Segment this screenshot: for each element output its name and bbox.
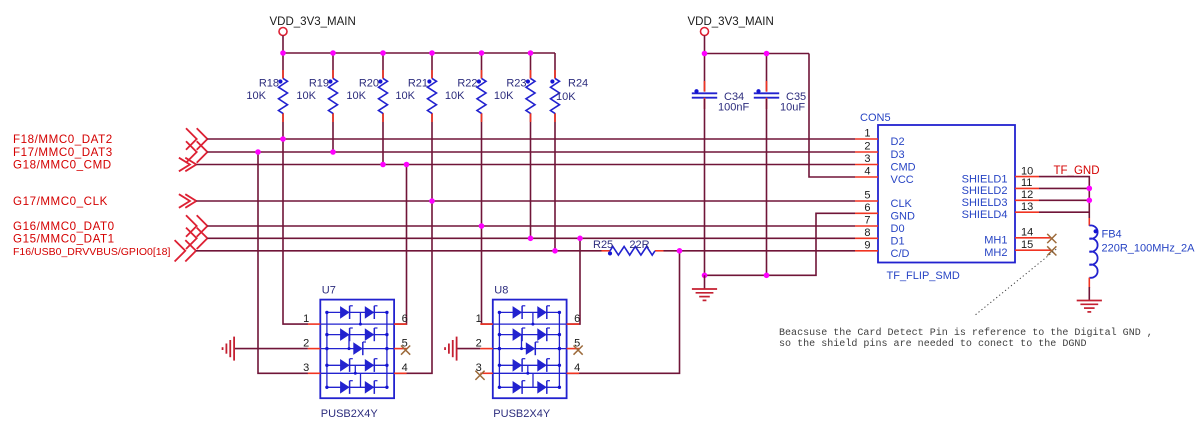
resistor R25 22R <box>593 239 664 255</box>
svg-text:1: 1 <box>303 313 309 325</box>
no-connect X pin15 <box>1047 246 1056 255</box>
svg-text:9: 9 <box>864 240 870 252</box>
svg-text:10uF: 10uF <box>780 101 805 113</box>
svg-text:7: 7 <box>864 215 870 227</box>
CON5 pin 2 D3 <box>855 141 905 161</box>
svg-text:1: 1 <box>864 128 870 140</box>
power symbol VDD_3V3_MAIN (right) <box>688 16 774 36</box>
CON5 pin 3 CMD <box>855 153 916 173</box>
CON5 pin 6 GND <box>855 202 915 222</box>
resistor R20 10K <box>346 53 387 165</box>
svg-text:TF_FLIP_SMD: TF_FLIP_SMD <box>887 270 960 282</box>
svg-text:R20: R20 <box>359 78 379 90</box>
connector CON5 body <box>878 125 1015 263</box>
svg-text:C/D: C/D <box>891 248 910 260</box>
ground (TF_GND) <box>1077 301 1102 312</box>
svg-text:22R: 22R <box>629 239 649 251</box>
junction dots on pull-up rail <box>280 50 533 56</box>
svg-text:CON5: CON5 <box>860 112 891 124</box>
ESD diode array U7 PUSB2X4Y <box>223 285 411 421</box>
wire VDD stem left <box>282 36 284 54</box>
svg-text:10K: 10K <box>246 90 266 102</box>
resistor R22 10K <box>445 53 486 226</box>
junction cap rail C34 <box>702 51 708 57</box>
svg-text:8: 8 <box>864 227 870 239</box>
svg-text:6: 6 <box>864 202 870 214</box>
svg-text:U7: U7 <box>322 285 336 297</box>
svg-text:15: 15 <box>1021 239 1033 251</box>
wire CD left segment <box>196 250 602 252</box>
svg-text:100nF: 100nF <box>718 101 749 113</box>
svg-text:MH1: MH1 <box>984 235 1007 247</box>
junction C-D branch <box>677 248 683 254</box>
wire CMD to U7 pin6 <box>394 165 406 325</box>
resistor R18 10K <box>246 53 287 139</box>
svg-text:2: 2 <box>303 337 309 349</box>
wire D0 <box>207 225 855 227</box>
junction cap rail C35 <box>764 51 770 57</box>
junction CLK/R21 <box>429 198 435 204</box>
svg-text:220R_100MHz_2A: 220R_100MHz_2A <box>1102 243 1196 255</box>
wire DAT1 to U8 pin6 <box>567 238 580 324</box>
svg-text:2: 2 <box>476 337 482 349</box>
wire DAT3 <box>207 151 855 153</box>
svg-text:14: 14 <box>1021 227 1033 239</box>
svg-text:10: 10 <box>1021 165 1033 177</box>
resistor R23 10K <box>494 53 535 238</box>
svg-text:13: 13 <box>1021 201 1033 213</box>
wire shield3 to bus <box>1039 199 1089 201</box>
svg-text:VDD_3V3_MAIN: VDD_3V3_MAIN <box>688 16 774 28</box>
CON5 pin 13 SHIELD4 <box>962 201 1039 221</box>
CON5 pin 4 VCC <box>855 166 914 186</box>
junction C-D/R24 <box>552 248 558 254</box>
wire CLK <box>196 200 855 202</box>
wire CLK to U7 pin4 <box>394 201 432 373</box>
off-page connector G18/MMC0_CMD <box>179 158 196 172</box>
svg-text:Beacsuse the Card Detect Pin i: Beacsuse the Card Detect Pin is referenc… <box>779 327 1153 339</box>
CON5 pin 14 MH1 <box>984 227 1051 247</box>
svg-text:G18/MMC0_CMD: G18/MMC0_CMD <box>13 159 112 172</box>
wire GND from CON5 pin6 <box>705 213 856 275</box>
annotation leader dotted line <box>976 248 1058 315</box>
svg-text:5: 5 <box>864 190 870 202</box>
wire shield2 to bus <box>1039 187 1089 189</box>
wire DAT2 to U7 pin1 <box>283 139 308 324</box>
junction CMD branch <box>404 162 410 168</box>
power symbol VDD_3V3_MAIN (left) <box>270 16 356 36</box>
svg-text:D1: D1 <box>891 235 905 247</box>
CON5 pin 10 SHIELD1 <box>962 165 1039 185</box>
svg-text:F17/MMC0_DAT3: F17/MMC0_DAT3 <box>13 146 113 159</box>
junction shield2 <box>1087 186 1093 192</box>
wire shield bus <box>1039 177 1089 218</box>
wire pull-up rail <box>283 52 555 54</box>
svg-text:D3: D3 <box>891 149 905 161</box>
svg-text:R25: R25 <box>593 239 613 251</box>
svg-text:R19: R19 <box>309 78 329 90</box>
off-page connector G17/MMC0_CLK <box>179 194 196 208</box>
junction GND/C35 <box>764 273 770 279</box>
svg-text:VCC: VCC <box>891 174 914 186</box>
junction DAT3/R19 <box>330 149 336 155</box>
wire VCC drop <box>809 54 855 178</box>
svg-text:G16/MMC0_DAT0: G16/MMC0_DAT0 <box>13 220 115 233</box>
svg-text:R18: R18 <box>259 78 279 90</box>
resistor R21 10K <box>395 53 436 201</box>
svg-text:GND: GND <box>891 210 916 222</box>
CON5 pin 15 MH2 <box>984 239 1051 259</box>
svg-text:D0: D0 <box>891 223 905 235</box>
svg-text:so the shield pins are needed: so the shield pins are needed to conect … <box>779 338 1087 350</box>
svg-text:SHIELD3: SHIELD3 <box>962 197 1008 209</box>
ESD diode array U8 PUSB2X4Y <box>445 285 583 421</box>
svg-text:6: 6 <box>402 313 408 325</box>
ground (digital GND below C34) <box>692 289 717 300</box>
svg-text:2: 2 <box>864 141 870 153</box>
svg-text:SHIELD1: SHIELD1 <box>962 173 1008 185</box>
svg-text:TF_GND: TF_GND <box>1054 165 1100 177</box>
svg-text:R23: R23 <box>506 78 526 90</box>
svg-text:10K: 10K <box>395 90 415 102</box>
CON5 pin 5 CLK <box>855 190 913 210</box>
no-connect X pin14 <box>1047 234 1056 243</box>
wire CMD <box>196 164 855 166</box>
svg-text:10K: 10K <box>556 91 576 103</box>
svg-text:1: 1 <box>476 313 482 325</box>
capacitor C34 100nF <box>692 54 750 276</box>
svg-text:10K: 10K <box>296 90 316 102</box>
CON5 pin 7 D0 <box>855 215 905 235</box>
svg-text:MH2: MH2 <box>984 247 1007 259</box>
svg-text:4: 4 <box>574 362 580 374</box>
svg-text:F16/USB0_DRVVBUS/GPIO0[18]: F16/USB0_DRVVBUS/GPIO0[18] <box>13 246 170 258</box>
junction shield3 <box>1087 198 1093 204</box>
svg-text:PUSB2X4Y: PUSB2X4Y <box>493 408 551 420</box>
svg-text:SHIELD4: SHIELD4 <box>962 209 1008 221</box>
wire DAT2 <box>207 138 855 140</box>
wire ground stem <box>704 275 706 289</box>
svg-text:R21: R21 <box>408 78 428 90</box>
svg-text:4: 4 <box>402 362 408 374</box>
off-page connector F18/MMC0_DAT2 <box>186 128 207 149</box>
CON5 pin 8 D1 <box>855 227 905 247</box>
wire D1 <box>207 237 855 239</box>
wire shield4 to bus <box>1039 211 1089 213</box>
svg-text:FB4: FB4 <box>1102 229 1122 241</box>
junction GND/C34 <box>702 273 708 279</box>
svg-text:G15/MMC0_DAT1: G15/MMC0_DAT1 <box>13 233 115 246</box>
junction DAT3 branch <box>255 149 261 155</box>
junction DAT1 branch <box>577 236 583 242</box>
capacitor C35 10uF <box>754 54 806 276</box>
off-page connector F17/MMC0_DAT3 <box>186 141 207 162</box>
wire C/D right of R25 <box>664 250 856 252</box>
resistor R19 10K <box>296 53 337 152</box>
svg-text:10K: 10K <box>445 90 465 102</box>
wire DAT0 to U8 pin1 <box>482 226 493 324</box>
svg-text:10K: 10K <box>346 90 366 102</box>
junction DAT0/R22 <box>479 223 485 229</box>
svg-text:SHIELD2: SHIELD2 <box>962 185 1008 197</box>
junction DAT1/R23 <box>528 236 534 242</box>
svg-text:12: 12 <box>1021 189 1033 201</box>
wire cap rail <box>705 53 810 55</box>
CON5 pin 12 SHIELD3 <box>962 189 1039 209</box>
wire DAT3 to U7 pin3 <box>258 152 308 373</box>
off-page connector G15/MMC0_DAT1 <box>186 228 207 249</box>
svg-text:10K: 10K <box>494 90 514 102</box>
ferrite bead FB4 <box>1089 218 1195 288</box>
svg-text:D2: D2 <box>891 136 905 148</box>
svg-text:3: 3 <box>864 153 870 165</box>
junction DAT2/R18 <box>280 136 286 142</box>
svg-text:F18/MMC0_DAT2: F18/MMC0_DAT2 <box>13 133 113 146</box>
svg-text:VDD_3V3_MAIN: VDD_3V3_MAIN <box>270 16 356 28</box>
svg-text:R22: R22 <box>457 78 477 90</box>
off-page connector G16/MMC0_DAT0 <box>186 215 207 236</box>
svg-text:11: 11 <box>1021 177 1032 189</box>
svg-text:CMD: CMD <box>891 162 916 174</box>
CON5 pin 1 D2 <box>855 128 905 148</box>
svg-text:6: 6 <box>574 313 580 325</box>
junction CMD/R20 <box>380 162 386 168</box>
resistor R24 10K <box>550 53 588 251</box>
svg-text:4: 4 <box>864 166 870 178</box>
svg-text:U8: U8 <box>494 285 508 297</box>
wire VDD stem right <box>704 36 706 54</box>
svg-text:3: 3 <box>303 362 309 374</box>
CON5 pin 9 C/D <box>855 240 910 260</box>
wire FB4 to ground <box>1088 287 1090 301</box>
svg-text:PUSB2X4Y: PUSB2X4Y <box>321 408 379 420</box>
wire C/D to U8 pin4 <box>567 251 680 373</box>
svg-text:R24: R24 <box>568 78 588 90</box>
off-page connector F16/USB0_DRVVBUS/GPIO0[18] <box>175 240 196 261</box>
svg-text:CLK: CLK <box>891 198 913 210</box>
svg-text:G17/MMC0_CLK: G17/MMC0_CLK <box>13 195 108 208</box>
CON5 pin 11 SHIELD2 <box>962 177 1039 197</box>
